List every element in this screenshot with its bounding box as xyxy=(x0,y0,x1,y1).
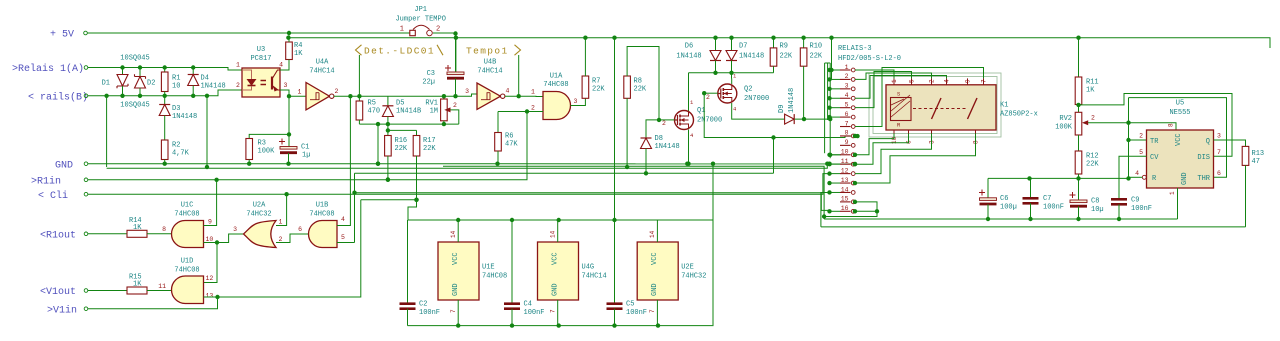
resistor R10 22K xyxy=(803,38,805,48)
relay K1 bottom pins xyxy=(893,130,895,134)
wire RC bottom xyxy=(359,123,458,125)
svg-text:1: 1 xyxy=(531,89,535,96)
capacitor C7 100nF xyxy=(1030,178,1032,198)
wire U1A.2 junction dot xyxy=(525,109,529,113)
svg-text:2: 2 xyxy=(706,94,710,101)
svg-text:8: 8 xyxy=(973,140,980,144)
svg-text:GND: GND xyxy=(651,283,659,296)
wire Q1 gate node xyxy=(659,119,675,121)
svg-text:100nF: 100nF xyxy=(419,309,440,317)
wire R1in rail to U1A.2 xyxy=(88,112,527,180)
svg-text:Jumper TEMPO: Jumper TEMPO xyxy=(395,16,445,24)
wire relay row1 to K1.1 xyxy=(855,70,894,78)
svg-text:RV2: RV2 xyxy=(1059,115,1072,123)
svg-text:14: 14 xyxy=(550,230,557,238)
wire bundle vertical a xyxy=(824,63,826,153)
resistor R17 22K xyxy=(416,130,418,135)
svg-text:47: 47 xyxy=(1252,158,1260,166)
svg-text:C9: C9 xyxy=(1131,197,1139,205)
svg-text:7: 7 xyxy=(450,309,457,313)
svg-text:11: 11 xyxy=(841,158,849,165)
svg-text:3: 3 xyxy=(284,82,288,89)
resistor R13 47 xyxy=(1242,146,1249,165)
outline relay group box xyxy=(869,73,1001,137)
svg-text:< rails(B): < rails(B) xyxy=(28,91,88,103)
svg-text:R9: R9 xyxy=(780,43,788,51)
wire railsB drop right xyxy=(206,96,208,167)
svg-text:HFD2/005-S-L2-0: HFD2/005-S-L2-0 xyxy=(838,55,901,63)
diode D8 1N4148 xyxy=(641,138,652,149)
wire D9 line into bundle xyxy=(795,118,831,120)
wire THR TR vertical xyxy=(1128,98,1130,179)
wire block gnd rail xyxy=(408,325,713,327)
capacitor C5 100nF xyxy=(607,302,623,305)
wire Relais A row xyxy=(88,68,242,71)
svg-text:U1C: U1C xyxy=(181,202,194,210)
hier label Tempo1 xyxy=(518,55,520,96)
svg-text:U3: U3 xyxy=(257,46,265,54)
wire +5V to pins 1,2 xyxy=(831,38,833,80)
wire block vcc to V1in net xyxy=(408,200,417,220)
svg-text:100K: 100K xyxy=(258,148,276,156)
svg-text:6: 6 xyxy=(1217,170,1221,177)
svg-text:U1B: U1B xyxy=(316,202,329,210)
svg-text:Q2: Q2 xyxy=(744,86,752,94)
svg-text:1: 1 xyxy=(1169,191,1176,195)
svg-text:5: 5 xyxy=(1139,149,1143,156)
svg-text:U5: U5 xyxy=(1176,100,1184,108)
svg-text:<R1out: <R1out xyxy=(40,230,76,241)
connector pin 15 xyxy=(840,201,851,203)
svg-text:THR: THR xyxy=(1197,175,1210,183)
svg-text:11: 11 xyxy=(158,283,166,290)
svg-text:10µ: 10µ xyxy=(1091,206,1104,214)
svg-text:100K: 100K xyxy=(1055,124,1073,132)
potentiometer RV1 1M xyxy=(443,96,445,99)
svg-text:2: 2 xyxy=(1139,133,1143,140)
wire U2A pin1 from Cli xyxy=(276,194,287,225)
connector pin 1 xyxy=(840,69,851,71)
wire pin feeds left xyxy=(830,69,841,71)
svg-text:D5: D5 xyxy=(396,100,404,108)
wire U1B pin4 from Det xyxy=(337,96,350,225)
wire U4B out to U1A xyxy=(505,95,543,97)
svg-text:DIS: DIS xyxy=(1197,154,1210,162)
svg-text:22K: 22K xyxy=(395,145,408,153)
wire line4 drop to U1B.5 xyxy=(354,173,356,242)
svg-text:U4B: U4B xyxy=(484,59,497,67)
svg-text:1: 1 xyxy=(891,79,898,83)
capacitor C3 22u xyxy=(455,34,457,72)
svg-text:2: 2 xyxy=(453,102,457,109)
svg-text:2: 2 xyxy=(335,88,339,95)
resistor R11 1K xyxy=(1078,38,1080,77)
wire Q out to R13 xyxy=(1214,140,1246,146)
svg-text:3: 3 xyxy=(233,226,237,233)
svg-text:D2: D2 xyxy=(147,80,155,88)
diode D2 10SQ045 xyxy=(139,68,141,77)
svg-text:D9: D9 xyxy=(778,105,786,113)
svg-text:C6: C6 xyxy=(1000,195,1008,203)
svg-text:1M: 1M xyxy=(430,108,438,116)
svg-text:100nF: 100nF xyxy=(524,309,545,317)
wire belt2 xyxy=(821,226,1246,228)
svg-text:Det.-LDC01: Det.-LDC01 xyxy=(364,46,435,57)
svg-text:D4: D4 xyxy=(201,75,209,83)
svg-text:C8: C8 xyxy=(1091,198,1099,206)
capacitor C1 1u xyxy=(288,134,290,146)
wire THR loop xyxy=(1129,98,1227,178)
svg-text:2: 2 xyxy=(436,26,440,34)
connector pin 16 xyxy=(840,210,851,212)
wire relay row7 to K1.7 xyxy=(855,68,984,127)
wire V1in net left drop xyxy=(218,200,361,297)
svg-text:2N7000: 2N7000 xyxy=(697,117,722,125)
svg-text:GND: GND xyxy=(552,283,560,296)
capacitor C9 100nF xyxy=(1111,198,1127,201)
svg-text:4: 4 xyxy=(845,92,849,99)
connector pin 6 xyxy=(840,116,851,118)
svg-text:74HC14: 74HC14 xyxy=(582,273,607,281)
resistor R5 470 xyxy=(358,96,360,101)
wire +5V rail lower xyxy=(288,38,1270,48)
svg-text:7: 7 xyxy=(845,120,849,127)
svg-text:VCC: VCC xyxy=(1175,133,1183,146)
svg-text:R2: R2 xyxy=(172,142,180,150)
resistor R8 22K xyxy=(624,76,631,98)
resistor R2 4,7K xyxy=(161,140,168,160)
svg-text:1N4148: 1N4148 xyxy=(172,113,197,121)
svg-text:4: 4 xyxy=(1135,170,1139,177)
wire node to R3 C1 xyxy=(288,96,290,134)
svg-text:1N4148: 1N4148 xyxy=(655,143,680,151)
wire GND rail xyxy=(88,163,855,165)
svg-text:C1: C1 xyxy=(301,144,309,152)
ic U2E 74HC32 power box xyxy=(637,242,678,300)
svg-text:2: 2 xyxy=(531,105,535,112)
schmitt inverter U4A 74HC14 xyxy=(306,83,330,110)
resistor R4 1K xyxy=(280,68,289,71)
wire bottom to R16R17 top xyxy=(387,124,389,130)
diode D6 1N4148 xyxy=(715,38,717,50)
wire relay row4 to K1.4 xyxy=(855,76,947,99)
connector pin 8 xyxy=(840,135,851,137)
connector pin 7 xyxy=(840,126,851,128)
wire U1A pin2 net R6 xyxy=(498,111,543,113)
capacitor C6 100u xyxy=(987,178,989,197)
diode D3 1N4148 xyxy=(164,96,166,105)
resistor R3 100K xyxy=(249,134,289,138)
optocoupler U3 PC817 xyxy=(242,68,280,97)
wire RV2 wiper to TR node xyxy=(1087,122,1129,124)
svg-text:74HC32: 74HC32 xyxy=(246,211,271,219)
svg-text:100nF: 100nF xyxy=(1043,204,1064,212)
svg-text:3: 3 xyxy=(574,98,578,105)
svg-text:2: 2 xyxy=(236,82,240,89)
svg-text:<V1out: <V1out xyxy=(40,287,76,298)
svg-text:1N4148: 1N4148 xyxy=(788,88,796,113)
connector pin 12 xyxy=(840,173,851,175)
svg-text:R8: R8 xyxy=(634,78,642,86)
and gate U1B 74HC08 xyxy=(309,221,338,248)
wire U1D pin13 stub xyxy=(204,296,218,298)
resistor R7 22K xyxy=(582,76,589,98)
svg-text:74HC08: 74HC08 xyxy=(174,267,199,275)
svg-text:VCC: VCC xyxy=(651,252,659,265)
connector pin 2 xyxy=(840,78,851,80)
svg-text:U2E: U2E xyxy=(681,264,694,272)
svg-text:R17: R17 xyxy=(423,137,436,145)
svg-text:RV1: RV1 xyxy=(425,100,438,108)
diode D4 1N4148 xyxy=(192,68,194,75)
svg-text:74HC14: 74HC14 xyxy=(309,68,334,76)
ic U4G 74HC14 power box xyxy=(538,242,579,300)
wire pin14 to belt2 xyxy=(821,192,830,226)
wire Q2 source to D9 xyxy=(732,103,785,119)
svg-text:74HC08: 74HC08 xyxy=(174,211,199,219)
svg-text:U1A: U1A xyxy=(550,73,563,81)
schmitt inverter U4B 74HC14 xyxy=(477,83,501,109)
svg-text:VCC: VCC xyxy=(552,252,560,265)
svg-text:6: 6 xyxy=(298,226,302,233)
svg-text:GND: GND xyxy=(1181,172,1189,185)
svg-text:100nF: 100nF xyxy=(626,309,647,317)
svg-text:14: 14 xyxy=(649,230,656,238)
timer U5 NE555 body xyxy=(1147,130,1214,188)
svg-text:Tempo1: Tempo1 xyxy=(466,46,509,57)
svg-text:1N4148: 1N4148 xyxy=(676,53,701,61)
wire pin10 down to U1D12 xyxy=(204,243,218,283)
wire railsB long xyxy=(107,164,828,169)
svg-text:8: 8 xyxy=(162,226,166,233)
connector pin 5 xyxy=(840,107,851,109)
svg-text:22K: 22K xyxy=(423,145,436,153)
svg-text:9: 9 xyxy=(845,139,849,146)
wire U3 pin3 to U4A xyxy=(280,90,306,96)
svg-text:R12: R12 xyxy=(1086,153,1099,161)
svg-text:4: 4 xyxy=(944,79,951,83)
svg-text:74HC08: 74HC08 xyxy=(482,273,507,281)
svg-text:7: 7 xyxy=(550,309,557,313)
wire TR pin xyxy=(1129,139,1147,141)
svg-text:10: 10 xyxy=(172,83,180,91)
svg-text:7: 7 xyxy=(1217,149,1221,156)
svg-text:D8: D8 xyxy=(655,135,663,143)
wire bundle vertical c xyxy=(829,63,831,158)
ic U1E 74HC08 power box xyxy=(438,242,479,300)
wire VCC pin8 xyxy=(1129,123,1177,130)
svg-text:1µ: 1µ xyxy=(302,152,310,160)
connector pin 14 xyxy=(840,191,851,193)
wire belt1 gnd caps xyxy=(824,218,1177,220)
svg-text:1: 1 xyxy=(236,62,240,69)
svg-text:GND: GND xyxy=(452,283,460,296)
capacitor C8 10u xyxy=(1078,178,1080,199)
svg-text:AZ850P2-x: AZ850P2-x xyxy=(1000,111,1038,119)
svg-text:22K: 22K xyxy=(1086,161,1099,169)
svg-text:15: 15 xyxy=(841,196,849,203)
svg-text:7: 7 xyxy=(649,309,656,313)
hier label Det.-LDC01 xyxy=(358,55,360,96)
jumper JP1 xyxy=(410,30,416,35)
wire mid line2 xyxy=(443,166,824,219)
wire Cli rail xyxy=(88,174,830,195)
svg-text:2: 2 xyxy=(929,79,936,83)
wire block vcc rail xyxy=(408,219,714,221)
wire U1A out to R7 xyxy=(571,98,586,105)
svg-text:K1: K1 xyxy=(1000,102,1008,110)
svg-text:10: 10 xyxy=(841,149,849,156)
resistor R15 1K xyxy=(88,290,127,292)
svg-text:74HC08: 74HC08 xyxy=(543,81,568,89)
wire bundle to relay pin10 xyxy=(830,154,841,156)
svg-text:1N414B: 1N414B xyxy=(396,108,421,116)
svg-text:CV: CV xyxy=(1150,154,1159,162)
svg-text:74HC08: 74HC08 xyxy=(309,211,334,219)
svg-text:1K: 1K xyxy=(133,280,142,288)
svg-text:GND: GND xyxy=(55,160,73,171)
svg-text:2N7000: 2N7000 xyxy=(744,95,769,103)
svg-text:R6: R6 xyxy=(505,133,513,141)
svg-text:R16: R16 xyxy=(395,137,408,145)
connector pin 9 xyxy=(840,144,851,146)
svg-text:13: 13 xyxy=(841,177,849,184)
wire r16 feed line xyxy=(355,193,830,211)
svg-text:13: 13 xyxy=(206,293,214,300)
wire U4A out to U4B in xyxy=(334,94,477,96)
svg-text:C5: C5 xyxy=(626,301,634,309)
wire railsB drop left xyxy=(106,96,108,167)
svg-text:12: 12 xyxy=(206,275,214,282)
resistor R1 10 xyxy=(164,68,166,73)
svg-text:R11: R11 xyxy=(1086,79,1099,87)
svg-text:1: 1 xyxy=(845,64,849,71)
svg-text:U1E: U1E xyxy=(482,264,495,272)
svg-text:R3: R3 xyxy=(258,140,266,148)
svg-text:PC817: PC817 xyxy=(250,55,271,63)
wire V1in to pin13 xyxy=(88,297,218,309)
svg-text:>R1in: >R1in xyxy=(31,175,61,187)
connector pin 11 xyxy=(840,163,851,165)
resistor R12 22K xyxy=(1078,135,1080,151)
wire R pin line xyxy=(988,177,1129,179)
svg-text:14: 14 xyxy=(450,230,457,238)
svg-text:D1: D1 xyxy=(102,80,110,88)
svg-text:2: 2 xyxy=(662,120,666,127)
potentiometer RV2 100K xyxy=(1075,112,1082,135)
svg-text:8: 8 xyxy=(845,130,849,137)
svg-text:4: 4 xyxy=(279,62,283,69)
svg-text:22K: 22K xyxy=(780,53,793,61)
wire U1B pin5 stub xyxy=(337,242,355,244)
svg-text:5: 5 xyxy=(909,79,916,83)
relay K1 top pins xyxy=(893,78,895,84)
svg-text:JP1: JP1 xyxy=(414,6,427,14)
wire pins 15 16 join xyxy=(824,202,877,217)
wire GND pin1 down xyxy=(1177,188,1179,219)
connector pin 4 xyxy=(840,97,851,99)
svg-text:3: 3 xyxy=(845,83,849,90)
svg-text:U2A: U2A xyxy=(253,202,266,210)
svg-text:D7: D7 xyxy=(739,43,747,51)
svg-text:R13: R13 xyxy=(1252,150,1265,158)
wire K1.8 to row13 xyxy=(855,134,976,184)
svg-text:74HC32: 74HC32 xyxy=(681,273,706,281)
wire U1C pin10 node xyxy=(204,242,218,244)
svg-text:U4G: U4G xyxy=(582,264,595,272)
svg-text:1: 1 xyxy=(279,219,283,226)
wire relay row5 to K1.5 xyxy=(855,72,912,108)
or gate U2A 74HC32 xyxy=(244,221,277,248)
svg-text:D3: D3 xyxy=(172,105,180,113)
wire U1C pin9 from R1in xyxy=(204,180,217,226)
svg-text:100nF: 100nF xyxy=(1131,205,1152,213)
wire rails B row xyxy=(88,90,242,96)
svg-text:1: 1 xyxy=(298,89,302,96)
capacitor C2 100nF xyxy=(407,220,409,304)
wire relay row8 right dot xyxy=(853,134,857,138)
resistor R14 1K xyxy=(88,233,127,235)
svg-text:R7: R7 xyxy=(592,78,600,86)
svg-text:4: 4 xyxy=(341,216,345,223)
wire U2A pin2 from U1B xyxy=(276,234,309,243)
wire drain node row xyxy=(689,72,774,74)
svg-text:9: 9 xyxy=(208,219,212,226)
wire D8 net line4 xyxy=(355,172,774,174)
svg-text:NE555: NE555 xyxy=(1169,109,1190,117)
svg-text:4: 4 xyxy=(506,88,510,95)
svg-text:1: 1 xyxy=(400,26,404,34)
svg-text:22µ: 22µ xyxy=(422,79,435,87)
svg-text:470: 470 xyxy=(368,108,381,116)
connector pin 3 xyxy=(840,88,851,90)
connector pin 13 xyxy=(840,182,851,184)
relay K1 coil xyxy=(891,98,912,121)
svg-text:+ 5V: + 5V xyxy=(50,30,74,41)
wire K1.6 to row11 xyxy=(855,134,909,165)
svg-text:100µ: 100µ xyxy=(1000,204,1017,212)
wire V1in net line xyxy=(361,199,417,201)
svg-text:1N4148: 1N4148 xyxy=(739,53,764,61)
resistor R9 22K xyxy=(773,38,775,48)
svg-text:>Relais 1(A): >Relais 1(A) xyxy=(12,63,84,75)
svg-text:3: 3 xyxy=(929,140,936,144)
svg-text:74HC14: 74HC14 xyxy=(477,68,502,76)
svg-text:10: 10 xyxy=(206,236,214,243)
wire Q1 source to GND xyxy=(688,130,690,164)
svg-text:C3: C3 xyxy=(427,70,435,78)
wire relay row2 to K1.2 xyxy=(855,73,932,79)
svg-text:Q: Q xyxy=(1206,138,1210,146)
svg-text:U4A: U4A xyxy=(316,59,329,67)
svg-text:VCC: VCC xyxy=(452,252,460,265)
relay K1 AZ850P2-x body xyxy=(886,85,996,130)
wire +5V rail upper xyxy=(87,32,410,34)
diode D7 1N4148 xyxy=(731,38,733,50)
wire ground stub x378 xyxy=(377,124,379,164)
svg-text:2: 2 xyxy=(279,236,283,243)
svg-text:1K: 1K xyxy=(294,50,303,58)
wire relay8 drop xyxy=(773,138,775,174)
diode D5 1N4148 xyxy=(387,96,389,106)
diode D1 10SQ045 xyxy=(122,68,124,75)
svg-text:D6: D6 xyxy=(685,43,693,51)
svg-text:14: 14 xyxy=(841,186,849,193)
svg-text:2: 2 xyxy=(845,73,849,80)
wire RV1 wiper xyxy=(450,110,459,124)
wire DIS loop xyxy=(1079,94,1233,157)
svg-text:16: 16 xyxy=(841,205,849,212)
